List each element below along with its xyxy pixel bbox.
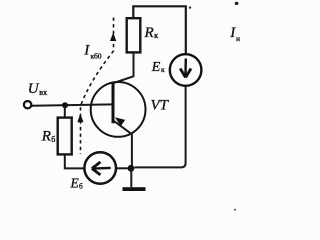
svg-text:б: б xyxy=(79,181,83,190)
svg-text:б: б xyxy=(51,135,55,144)
svg-text:вх: вх xyxy=(39,88,47,97)
svg-text:U: U xyxy=(28,81,40,97)
wire top rail xyxy=(133,6,186,53)
label Uвх xyxy=(28,81,47,97)
svg-text:E: E xyxy=(151,60,161,75)
wire emitter xyxy=(113,120,132,166)
node base junction xyxy=(62,102,68,108)
wire right return xyxy=(135,87,186,168)
wire Rб bottom to Eб xyxy=(65,155,85,169)
label Rб xyxy=(41,129,55,145)
wire Eб to ground node xyxy=(116,167,129,169)
ground xyxy=(123,168,146,191)
svg-text:к: к xyxy=(161,65,165,74)
current path Iкб0 dashed xyxy=(81,18,114,155)
label Rк xyxy=(144,25,159,41)
label Iкб0 xyxy=(83,42,102,60)
stray dot near top rail corner xyxy=(189,6,191,8)
wire base xyxy=(31,104,113,105)
resistor Rб xyxy=(58,118,72,155)
svg-text:н: н xyxy=(236,34,240,43)
wire Rб top xyxy=(64,105,66,117)
source Eб xyxy=(84,152,116,184)
svg-text:E: E xyxy=(70,175,80,190)
svg-text:I: I xyxy=(83,42,90,58)
current arrow bottom xyxy=(77,114,83,123)
label Eб xyxy=(70,175,84,190)
node emitter junction xyxy=(128,165,135,172)
stray dot bottom right xyxy=(234,209,236,211)
emitter arrow (pnp) xyxy=(115,117,125,126)
transistor VT xyxy=(91,82,146,137)
svg-text:R: R xyxy=(41,129,51,145)
svg-text:VT: VT xyxy=(151,98,170,114)
label I right edge xyxy=(229,25,240,43)
label Eк xyxy=(151,60,165,75)
stray mark top right corner xyxy=(235,2,239,5)
svg-text:кб0: кб0 xyxy=(91,51,102,60)
wire collector xyxy=(114,52,134,83)
svg-text:R: R xyxy=(144,25,154,41)
terminal Uвх xyxy=(24,101,31,108)
svg-text:к: к xyxy=(154,31,158,40)
current arrow top xyxy=(110,33,116,42)
resistor Rк xyxy=(127,18,141,52)
source Eк xyxy=(170,54,202,86)
